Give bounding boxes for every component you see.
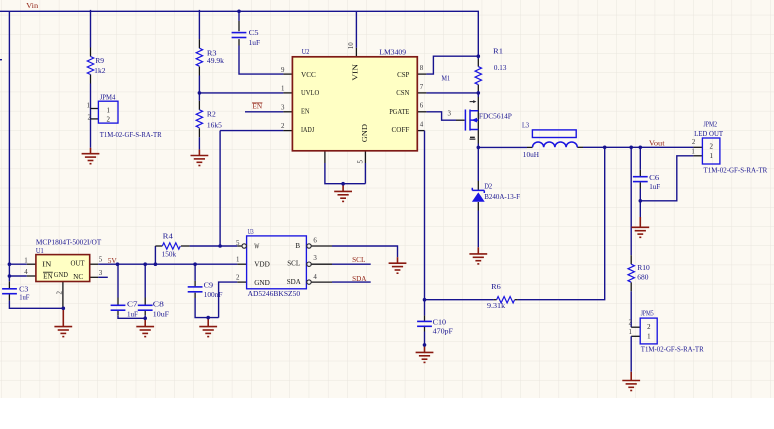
svg-text:2: 2 xyxy=(692,139,696,146)
svg-text:2: 2 xyxy=(281,123,285,130)
wire JPM5 pin1 to ground xyxy=(630,336,632,372)
svg-text:MCP1804T-5002I/OT: MCP1804T-5002I/OT xyxy=(36,238,102,247)
capacitor C5 xyxy=(232,33,247,38)
svg-text:C6: C6 xyxy=(649,173,659,182)
resistor R2 xyxy=(196,110,202,128)
op-amp U2 body LM3409 xyxy=(292,57,417,151)
resistor R10 xyxy=(628,264,634,282)
wire C6 column xyxy=(639,147,641,170)
capacitor C8 xyxy=(138,305,153,310)
wire U3 GND pin2 xyxy=(219,282,238,318)
svg-text:R6: R6 xyxy=(491,282,501,291)
svg-text:L3: L3 xyxy=(522,120,529,129)
svg-text:COFF: COFF xyxy=(392,125,410,134)
svg-text:R2: R2 xyxy=(207,109,216,118)
svg-text:7: 7 xyxy=(420,84,424,91)
svg-text:C9: C9 xyxy=(204,280,214,289)
svg-text:1uF: 1uF xyxy=(649,182,660,191)
svg-text:JPM4: JPM4 xyxy=(100,92,116,101)
inductor L3 coil xyxy=(533,142,578,147)
svg-text:6: 6 xyxy=(420,103,424,110)
svg-text:16k5: 16k5 xyxy=(207,121,222,130)
ground at C7 C8 xyxy=(144,318,146,326)
svg-text:680: 680 xyxy=(637,273,648,282)
svg-text:GND: GND xyxy=(54,270,69,279)
wire JPM4 pin2 stub xyxy=(91,118,99,120)
svg-text:6: 6 xyxy=(313,237,317,244)
connector JPM4 box xyxy=(98,101,118,123)
wire M1 drain column xyxy=(477,93,479,97)
svg-text:D2: D2 xyxy=(484,181,492,190)
svg-text:49.9k: 49.9k xyxy=(207,56,224,65)
svg-text:3: 3 xyxy=(281,104,285,111)
svg-text:EN: EN xyxy=(43,272,53,281)
wire IADJ xyxy=(220,130,283,132)
pin circle U3 SCL xyxy=(307,262,311,266)
wire Vout drop x604 to R6 xyxy=(518,147,605,299)
svg-text:Vout: Vout xyxy=(649,138,666,147)
wire C8 column xyxy=(144,264,146,297)
wire left Vin rail xyxy=(8,11,10,281)
svg-text:10uF: 10uF xyxy=(153,309,169,318)
svg-text:OUT: OUT xyxy=(71,259,85,268)
svg-text:B240A-13-F: B240A-13-F xyxy=(484,192,520,201)
wire U3 B pin to ground xyxy=(311,245,332,247)
svg-text:T1M-02-GF-S-RA-TR: T1M-02-GF-S-RA-TR xyxy=(641,344,705,353)
svg-text:5: 5 xyxy=(357,160,364,164)
wire R4 drop xyxy=(154,246,156,264)
svg-text:C7: C7 xyxy=(127,300,138,309)
svg-text:C5: C5 xyxy=(249,28,259,37)
wire R6 stubs xyxy=(515,299,518,301)
svg-text:PGATE: PGATE xyxy=(389,107,409,116)
svg-text:1: 1 xyxy=(106,107,110,114)
resistor R6 xyxy=(497,297,515,303)
wire EN stub xyxy=(245,111,283,113)
svg-text:5V: 5V xyxy=(108,256,118,265)
wire U1 EN xyxy=(9,275,26,277)
svg-text:5: 5 xyxy=(236,240,240,247)
svg-text:FDC5614P: FDC5614P xyxy=(479,111,512,120)
wire R3 to R2 xyxy=(198,67,200,76)
svg-text:GND: GND xyxy=(360,123,369,142)
capacitor C7 xyxy=(111,305,126,310)
wire SCL stub xyxy=(311,263,332,265)
ground at C6 xyxy=(639,217,641,227)
svg-text:9.31k: 9.31k xyxy=(487,301,505,310)
wire Vin top rail xyxy=(0,11,478,56)
wire CSN xyxy=(417,92,426,94)
wire C3 plate stems xyxy=(8,281,10,288)
svg-text:UVLO: UVLO xyxy=(301,88,320,97)
svg-text:2: 2 xyxy=(647,324,651,331)
svg-text:EN: EN xyxy=(301,107,310,116)
svg-text:T1M-02-GF-S-RA-TR: T1M-02-GF-S-RA-TR xyxy=(100,130,163,139)
pin circle U3 SDA xyxy=(307,280,311,284)
svg-text:LED OUT: LED OUT xyxy=(694,129,723,138)
svg-text:1: 1 xyxy=(647,333,651,340)
svg-text:1uF: 1uF xyxy=(249,38,261,47)
svg-text:AD5246BKSZ50: AD5246BKSZ50 xyxy=(248,289,301,298)
wire R4 stubs xyxy=(155,245,162,247)
svg-text:10uH: 10uH xyxy=(523,150,540,159)
svg-text:1: 1 xyxy=(236,257,240,264)
svg-text:10: 10 xyxy=(348,42,355,49)
svg-text:Vin: Vin xyxy=(26,1,38,10)
wire U2 gnd drop pin5 xyxy=(364,151,366,163)
svg-text:IN: IN xyxy=(42,259,52,268)
svg-text:JPM5: JPM5 xyxy=(641,308,654,317)
svg-text:2: 2 xyxy=(709,144,713,151)
ground at C9 xyxy=(207,318,209,327)
transistor M1 FDC5614P xyxy=(465,100,478,139)
svg-text:VDD: VDD xyxy=(254,259,270,268)
wire R2 to ground xyxy=(198,128,200,137)
svg-text:8: 8 xyxy=(420,65,424,72)
wire U1 IN xyxy=(9,263,26,265)
svg-text:JPM2: JPM2 xyxy=(704,120,718,129)
capacitor C10 xyxy=(417,321,432,326)
svg-text:2: 2 xyxy=(236,274,240,281)
svg-text:CSP: CSP xyxy=(397,70,409,79)
svg-text:1: 1 xyxy=(709,153,713,160)
wire 5V rail xyxy=(90,263,99,265)
wire R9 column top xyxy=(90,10,92,48)
ground at JPM5 xyxy=(630,372,632,381)
ground at JPM4 xyxy=(90,148,92,154)
diode D2 schottky xyxy=(472,188,485,202)
wire SDA stub xyxy=(311,281,332,283)
wire switch node to L3 xyxy=(478,146,527,148)
svg-text:SCL: SCL xyxy=(287,259,300,268)
svg-text:U1: U1 xyxy=(36,246,44,255)
svg-text:3: 3 xyxy=(99,270,103,277)
resistor R4 xyxy=(162,243,180,249)
svg-text:T1M-02-GF-S-RA-TR: T1M-02-GF-S-RA-TR xyxy=(704,166,769,175)
svg-text:9: 9 xyxy=(281,67,285,74)
svg-text:1k2: 1k2 xyxy=(94,66,106,75)
wire C6 gnd stem xyxy=(639,201,641,217)
svg-text:3: 3 xyxy=(448,111,452,118)
svg-text:5: 5 xyxy=(99,257,103,264)
svg-text:R1: R1 xyxy=(493,47,503,56)
wire R1 top stub xyxy=(477,56,479,59)
svg-text:CSN: CSN xyxy=(396,88,410,97)
ground at U1 pin2 xyxy=(62,308,64,326)
svg-text:150k: 150k xyxy=(162,250,177,259)
resistor R1 xyxy=(475,67,481,85)
svg-text:4: 4 xyxy=(313,274,317,281)
svg-text:1: 1 xyxy=(628,329,632,336)
ground at U3 B xyxy=(397,257,399,263)
svg-text:2: 2 xyxy=(106,117,110,124)
svg-text:2: 2 xyxy=(57,291,64,295)
wire C7 column xyxy=(117,264,119,297)
wire COFF down xyxy=(417,130,424,132)
op-amp U1 body MCP1804 xyxy=(36,255,90,282)
wire UVLO net xyxy=(199,92,283,94)
svg-text:SDA: SDA xyxy=(352,274,367,283)
wire U2 gnd drop left xyxy=(324,151,326,163)
connector JPM2 box xyxy=(702,138,720,164)
svg-text:1uF: 1uF xyxy=(19,293,29,302)
svg-text:2: 2 xyxy=(628,320,632,327)
svg-text:4: 4 xyxy=(420,121,424,128)
op-amp U3 body AD5246 xyxy=(247,236,307,289)
svg-text:470pF: 470pF xyxy=(433,326,453,335)
wire R9 to JPM4 xyxy=(90,75,92,84)
wire D2 column xyxy=(477,147,479,181)
wire L3 to Vout rail xyxy=(577,146,583,148)
connector JPM5 box xyxy=(640,318,657,344)
svg-text:R10: R10 xyxy=(637,263,650,272)
wire JPM5 pin2 stub xyxy=(631,326,640,328)
svg-text:IADJ: IADJ xyxy=(301,125,314,134)
svg-text:R4: R4 xyxy=(163,232,173,241)
svg-text:1uF: 1uF xyxy=(127,309,138,318)
wire C5 bottom to VCC xyxy=(238,39,240,45)
wire C9 column xyxy=(194,264,196,281)
capacitor C6 xyxy=(633,177,648,182)
svg-text:2: 2 xyxy=(88,114,92,121)
wire stub left edge xyxy=(0,59,2,61)
pin circle U3 B xyxy=(307,244,311,248)
svg-text:LM3409: LM3409 xyxy=(379,48,406,57)
wire C5 top xyxy=(238,11,240,21)
svg-text:0.13: 0.13 xyxy=(494,63,507,72)
wire C10 column xyxy=(424,300,426,316)
wire R1 bottom stub xyxy=(477,85,479,91)
wire U1 pin2 drop xyxy=(62,282,64,309)
svg-text:NC: NC xyxy=(73,272,83,281)
wire VIN pin10 drop xyxy=(355,11,357,48)
svg-text:B: B xyxy=(295,241,300,250)
svg-text:SDA: SDA xyxy=(287,277,301,286)
inductor L3 box xyxy=(532,130,576,138)
resistor R3 xyxy=(196,48,202,66)
pin circle U3 W xyxy=(242,244,246,248)
wire IADJ column down xyxy=(219,131,221,246)
svg-text:C8: C8 xyxy=(153,300,164,309)
svg-text:1: 1 xyxy=(87,102,91,109)
svg-text:GND: GND xyxy=(254,278,270,287)
svg-text:VIN: VIN xyxy=(350,63,359,80)
wire U1 NC stub xyxy=(90,276,99,278)
wire JPM5 pin1 stub xyxy=(631,335,640,337)
ground at U2 GND xyxy=(342,184,344,192)
capacitor C3 xyxy=(2,289,17,294)
capacitor C9 xyxy=(188,287,203,292)
junction dots xyxy=(237,10,241,14)
svg-text:4: 4 xyxy=(24,269,28,276)
svg-text:1: 1 xyxy=(691,149,695,156)
wire R10 column xyxy=(630,147,632,255)
svg-text:U3: U3 xyxy=(248,227,254,236)
ground at R2 xyxy=(198,150,200,156)
svg-text:R9: R9 xyxy=(95,56,104,65)
svg-text:U2: U2 xyxy=(302,47,310,56)
svg-text:M1: M1 xyxy=(442,73,451,82)
svg-text:3: 3 xyxy=(313,255,317,262)
wire JPM2 pin1 loop xyxy=(640,156,693,201)
svg-text:100nF: 100nF xyxy=(204,290,223,299)
wire CSP path xyxy=(417,73,426,75)
svg-text:W: W xyxy=(254,242,260,251)
svg-text:C10: C10 xyxy=(433,317,447,326)
wire R3 column top xyxy=(198,10,200,39)
svg-text:1: 1 xyxy=(281,86,285,93)
wire W pin stub xyxy=(220,245,237,247)
wire JPM4 pin1 stub xyxy=(91,108,99,110)
ground at C10 xyxy=(424,345,426,353)
wire PGATE xyxy=(417,111,426,113)
svg-text:SCL: SCL xyxy=(352,255,366,264)
resistor R9 xyxy=(87,57,93,75)
svg-text:1: 1 xyxy=(24,257,28,264)
ground at D2 xyxy=(477,247,479,254)
svg-text:VCC: VCC xyxy=(301,70,316,79)
